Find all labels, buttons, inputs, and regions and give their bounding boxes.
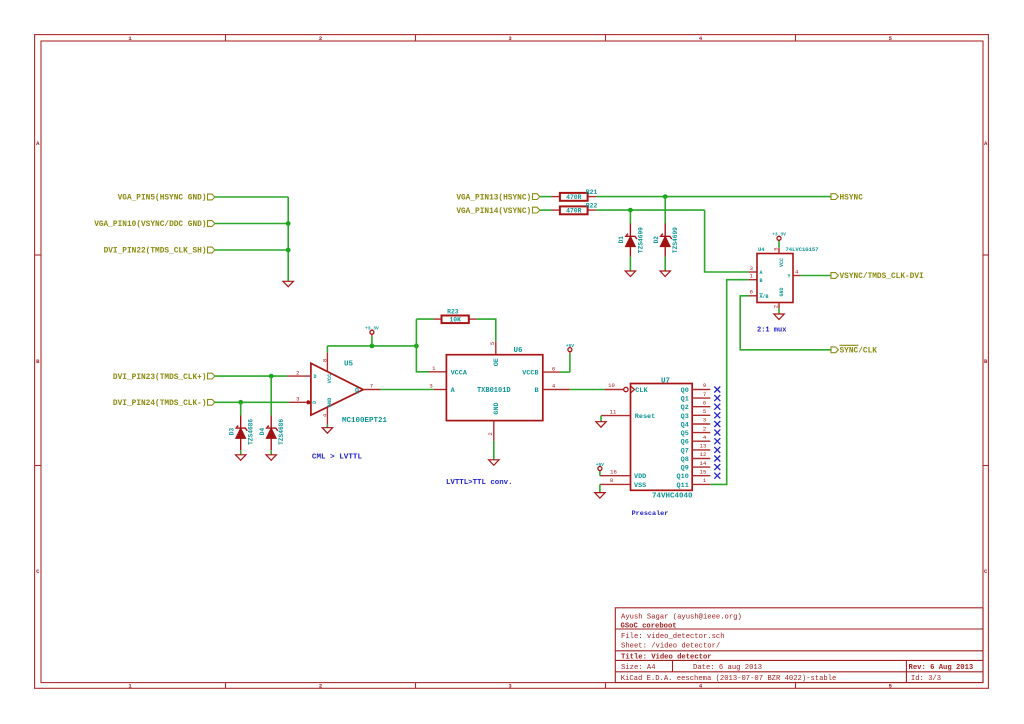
ground symbol D2	[660, 271, 670, 277]
svg-text:TZS4699: TZS4699	[672, 227, 679, 253]
label VGA_PIN14(VSYNC)	[456, 207, 540, 216]
svg-text:Q1: Q1	[681, 396, 689, 404]
U5 pin 2	[287, 369, 311, 376]
svg-text:Id: 3/3: Id: 3/3	[911, 675, 941, 683]
svg-text:VCCA: VCCA	[451, 370, 468, 378]
wire VGA_PIN14 to R22	[540, 209, 552, 211]
U5 pin 4 GND	[322, 408, 329, 425]
svg-text:Rev: 6 Aug 2013: Rev: 6 Aug 2013	[909, 664, 974, 672]
wire VGA_PIN13 to R21	[540, 196, 552, 198]
ground symbol Reset	[596, 422, 606, 428]
svg-text:TZS4699: TZS4699	[637, 227, 644, 253]
ground symbol U4	[774, 314, 784, 320]
no-connect Q3	[714, 412, 720, 418]
U7 pin 5 Q3	[692, 408, 710, 415]
ground symbol U5	[322, 428, 332, 434]
svg-text:470R: 470R	[566, 194, 582, 201]
svg-text:3: 3	[296, 396, 299, 403]
svg-text:2: 2	[296, 369, 299, 376]
wire Q11 to mux B	[710, 280, 748, 485]
svg-text:+3.3V: +3.3V	[365, 326, 379, 332]
svg-text:6: 6	[703, 399, 706, 406]
svg-text:R21: R21	[586, 189, 598, 196]
svg-text:74LVC1G157: 74LVC1G157	[786, 246, 819, 253]
svg-text:8: 8	[322, 359, 329, 362]
no-connect Q4	[714, 421, 720, 427]
no-connect Q2	[714, 404, 720, 410]
svg-text:15: 15	[700, 468, 707, 475]
U7 pin 4 Q6	[692, 434, 710, 441]
junction rail corner	[414, 344, 419, 349]
U4 pin 1 B	[749, 273, 757, 280]
svg-text:74VHC4040: 74VHC4040	[652, 493, 693, 501]
U4 pin 6 select	[749, 289, 757, 296]
svg-text:14: 14	[700, 460, 707, 467]
svg-text:VSS: VSS	[634, 482, 646, 490]
svg-text:470R: 470R	[566, 208, 582, 215]
svg-text:12: 12	[700, 451, 707, 458]
no-connect Q0	[714, 387, 720, 393]
svg-text:3: 3	[703, 417, 706, 424]
svg-text:Q2: Q2	[681, 404, 689, 412]
svg-text:CLK: CLK	[635, 387, 648, 395]
wire select to SYNC/CLK label	[740, 296, 831, 350]
IC U6 TXB0101D	[446, 347, 542, 421]
U7 pin 15 Q10	[692, 468, 710, 475]
svg-text:CML > LVTTL: CML > LVTTL	[312, 453, 363, 461]
svg-text:U5: U5	[344, 361, 354, 369]
svg-text:VGA_PIN5(HSYNC GND): VGA_PIN5(HSYNC GND)	[118, 195, 207, 203]
ground symbol D3	[236, 455, 246, 461]
label SYNC/CLK	[831, 345, 877, 355]
U7 pin 10 CLK inverted	[605, 382, 629, 391]
svg-text:DVI_PIN24(TMDS_CLK-): DVI_PIN24(TMDS_CLK-)	[113, 400, 207, 408]
svg-text:VGA_PIN10(VSYNC/DDC GND): VGA_PIN10(VSYNC/DDC GND)	[94, 221, 206, 229]
svg-text:Ayush Sagar (ayush@ieee.org): Ayush Sagar (ayush@ieee.org)	[621, 613, 742, 621]
ground symbol VSS	[595, 493, 605, 499]
U5 pin 8 VCC	[322, 352, 329, 371]
no-connect Q9	[714, 464, 720, 470]
svg-text:B: B	[760, 278, 763, 284]
IC U4 74LVC1G157	[757, 246, 819, 303]
U7 pin 9 Q0	[692, 382, 710, 389]
svg-text:MC100EPT21: MC100EPT21	[342, 417, 388, 425]
diode D3 TZS4686	[228, 402, 254, 454]
svg-text:VGA_PIN13(HSYNC): VGA_PIN13(HSYNC)	[456, 194, 531, 202]
U4 pin 4 Y	[793, 268, 800, 275]
svg-text:VGA_PIN14(VSYNC): VGA_PIN14(VSYNC)	[456, 208, 531, 216]
label VSYNC/TMDS_CLK-DVI	[831, 273, 924, 282]
wire U4 gnd	[778, 308, 780, 313]
svg-text:Date: 6 aug 2013: Date: 6 aug 2013	[693, 664, 762, 672]
svg-text:Q10: Q10	[677, 473, 689, 481]
power +5V U6	[560, 343, 574, 372]
svg-text:2: 2	[487, 432, 494, 435]
svg-text:OE: OE	[493, 358, 501, 366]
U5 pin 7 output wire	[363, 383, 380, 390]
svg-text:TZS4686: TZS4686	[248, 419, 255, 445]
svg-text:16: 16	[610, 468, 617, 475]
no-connect Q5	[714, 430, 720, 436]
wire U6 gnd	[493, 441, 495, 460]
svg-text:HSYNC: HSYNC	[840, 194, 864, 202]
U4 pin 5 VCC	[773, 247, 780, 253]
svg-text:Reset: Reset	[635, 413, 655, 421]
svg-text:VCC: VCC	[779, 258, 785, 267]
U6 pin 4 B	[543, 383, 570, 390]
svg-text:A: A	[760, 270, 763, 276]
wire R23 to OE	[477, 319, 496, 341]
U7 pin 1 Q11	[692, 477, 710, 484]
svg-text:GND: GND	[493, 402, 501, 414]
svg-text:9: 9	[703, 382, 706, 389]
note Prescaler	[632, 510, 669, 518]
svg-text:10: 10	[608, 382, 615, 389]
wire R22 to corner	[596, 209, 705, 211]
svg-text:TXB0101D: TXB0101D	[477, 387, 511, 395]
svg-text:KiCad E.D.A. eeschema (2013-0: KiCad E.D.A. eeschema (2013-07-07 BZR 40…	[621, 675, 837, 683]
U4 pin 2 GND	[773, 303, 780, 309]
U7 pin 3 Q4	[692, 417, 710, 424]
svg-text:+3.3V: +3.3V	[772, 232, 786, 238]
svg-text:D2: D2	[653, 236, 660, 244]
svg-text:5: 5	[703, 408, 706, 415]
no-connect Q1	[714, 395, 720, 401]
svg-text:U7: U7	[661, 377, 670, 385]
svg-text:D: D	[312, 401, 318, 404]
junction at VGA_PIN10 wire	[286, 221, 291, 226]
svg-text:Y: Y	[787, 274, 790, 280]
wire Y to label	[800, 275, 831, 277]
label DVI_PIN22(TMDS_CLK_SH)	[104, 247, 215, 256]
svg-text:VDD: VDD	[634, 473, 646, 481]
op-amp U5 MC100EPT21	[311, 361, 388, 426]
U6 pin 2 GND	[487, 421, 494, 441]
svg-text:GND: GND	[327, 397, 333, 407]
label HSYNC	[831, 194, 863, 203]
IC U7 74VHC4040	[631, 377, 693, 500]
U7 pin 7 Q1	[692, 391, 710, 398]
label DVI_PIN23(TMDS_CLK+)	[113, 373, 215, 382]
svg-text:R23: R23	[447, 308, 459, 315]
power +5V U7	[596, 462, 605, 476]
wire U6 B to U7 CLK	[570, 389, 605, 391]
svg-text:U4: U4	[758, 246, 765, 253]
no-connect Q7	[714, 447, 720, 453]
svg-text:2:1 mux: 2:1 mux	[757, 327, 787, 335]
U6 pin 5 OE	[489, 341, 496, 355]
svg-text:7: 7	[703, 391, 706, 398]
svg-text:DVI_PIN22(TMDS_CLK_SH): DVI_PIN22(TMDS_CLK_SH)	[104, 248, 207, 256]
diode D4 TZS4686	[259, 376, 285, 454]
wire DVI_PIN22 to vertical	[215, 249, 288, 251]
U7 pin 14 Q9	[692, 460, 710, 467]
wire rail to R23 and VCCA	[416, 319, 429, 372]
no-connect Q6	[714, 438, 720, 444]
U6 pin 6 VCCB	[543, 365, 560, 372]
svg-text:Q8: Q8	[681, 456, 689, 464]
svg-text:Q3: Q3	[681, 413, 689, 421]
svg-text:File: video_detector.sch: File: video_detector.sch	[621, 633, 725, 641]
svg-text:Q7: Q7	[681, 447, 689, 455]
svg-text:8: 8	[610, 477, 613, 484]
svg-text:2: 2	[773, 305, 780, 308]
wire VGA_PIN5 to vertical	[215, 196, 288, 198]
junction at DVI_PIN22 wire	[286, 248, 291, 253]
svg-text:Q: Q	[355, 387, 359, 394]
ground symbol D1	[625, 271, 635, 277]
svg-text:5: 5	[489, 342, 496, 345]
U7 pin 12 Q8	[692, 451, 710, 458]
ground symbol top-left group	[283, 281, 293, 287]
svg-text:U6: U6	[514, 347, 524, 355]
svg-text:3: 3	[750, 265, 753, 272]
svg-text:R22: R22	[586, 203, 598, 210]
U7 pin 11 Reset	[601, 408, 631, 415]
junction +3.3V tap	[370, 344, 375, 349]
svg-text:D4: D4	[259, 428, 266, 436]
svg-text:3: 3	[429, 383, 432, 390]
label DVI_PIN24(TMDS_CLK-)	[113, 399, 215, 408]
svg-text:D1: D1	[618, 236, 625, 244]
svg-text:7: 7	[370, 383, 373, 390]
U7 pin 8 VSS	[600, 477, 631, 484]
power +3.3V U5	[365, 326, 379, 346]
resistor R23 10K	[434, 308, 477, 323]
svg-text:LVTTL>TTL conv.: LVTTL>TTL conv.	[446, 479, 513, 487]
note LVTTL>TTL conv.	[446, 479, 513, 487]
svg-text:2: 2	[703, 425, 706, 432]
resistor R21 470R	[552, 189, 598, 201]
U7 pin 13 Q7	[692, 443, 710, 450]
svg-text:SYNC/CLK: SYNC/CLK	[840, 348, 878, 356]
svg-text:+5V: +5V	[566, 343, 575, 349]
svg-text:D: D	[314, 374, 317, 380]
U5 pin 3 inverted	[289, 396, 310, 405]
wire U5 VCC to rail	[326, 346, 328, 352]
wire VGA_PIN10 to vertical	[215, 223, 288, 225]
wire VSYNC down to mux A	[705, 210, 749, 272]
svg-text:Size: A4: Size: A4	[621, 664, 656, 672]
svg-text:B: B	[535, 387, 539, 395]
svg-text:Q11: Q11	[677, 482, 689, 490]
svg-text:11: 11	[610, 408, 617, 415]
svg-text:Q0: Q0	[681, 387, 689, 395]
wire Reset to ground	[600, 416, 602, 422]
svg-text:GSoC coreboot: GSoC coreboot	[621, 622, 677, 630]
wire vertical to ground	[287, 197, 289, 281]
svg-text:6: 6	[552, 365, 555, 372]
U7 pin 2 Q5	[692, 425, 710, 432]
power +3.3V U4	[772, 232, 786, 248]
wire U5 gnd	[326, 425, 328, 428]
U7 pin 6 Q2	[692, 399, 710, 406]
svg-text:10K: 10K	[449, 316, 461, 323]
ground symbol D4	[266, 455, 276, 461]
wire VSS to ground	[599, 484, 601, 492]
svg-text:DVI_PIN23(TMDS_CLK+): DVI_PIN23(TMDS_CLK+)	[113, 374, 207, 382]
svg-text:Title: Video detector: Title: Video detector	[621, 653, 712, 661]
wire U5 out to U6 A	[381, 389, 434, 391]
no-connect Q8	[714, 456, 720, 462]
wire DVI_PIN24 to U5 pin3	[215, 401, 289, 403]
svg-text:6: 6	[750, 289, 753, 296]
resistor R22 470R	[552, 203, 598, 215]
svg-text:A/B: A/B	[760, 294, 769, 300]
svg-text:VCCB: VCCB	[522, 370, 538, 378]
svg-text:13: 13	[700, 443, 707, 450]
label VGA_PIN13(HSYNC)	[456, 194, 540, 203]
svg-text:GND: GND	[779, 287, 785, 296]
wire R21 to HSYNC	[596, 196, 831, 198]
svg-text:D3: D3	[228, 428, 235, 436]
U7 pin 16 VDD	[600, 468, 631, 475]
wire DVI_PIN23 to U5 pin2	[215, 375, 287, 377]
U6 pin 1 VCCA	[429, 365, 446, 372]
svg-text:Q4: Q4	[681, 422, 689, 430]
svg-text:Q9: Q9	[681, 465, 689, 473]
svg-text:VSYNC/TMDS_CLK-DVI: VSYNC/TMDS_CLK-DVI	[840, 273, 925, 281]
svg-text:Q5: Q5	[681, 430, 689, 438]
junction D2 tap	[663, 194, 668, 199]
junction D1 tap	[628, 208, 633, 213]
svg-text:TZS4686: TZS4686	[278, 419, 285, 445]
svg-text:Prescaler: Prescaler	[632, 510, 669, 518]
label VGA_PIN10(VSYNC/DDC GND)	[94, 221, 215, 230]
svg-text:+5V: +5V	[596, 462, 605, 468]
ground symbol U6	[489, 460, 499, 466]
U6 pin 3 A	[429, 383, 446, 390]
note 2:1 mux	[757, 327, 787, 335]
wire VCC rail	[327, 345, 416, 347]
wire R23 left	[416, 318, 433, 320]
svg-text:Q6: Q6	[681, 439, 689, 447]
diode D1 TZS4699	[618, 210, 644, 271]
junction D4 tap	[269, 374, 274, 379]
diode D2 TZS4699	[653, 197, 679, 271]
svg-text:5: 5	[773, 247, 780, 250]
junction D3 tap	[238, 400, 243, 405]
no-connect Q10	[714, 473, 720, 479]
svg-text:Sheet: /video detector/: Sheet: /video detector/	[621, 642, 720, 650]
label VGA_PIN5(HSYNC GND)	[118, 194, 215, 203]
note CML > LVTTL	[312, 453, 363, 461]
svg-text:VCC: VCC	[327, 373, 333, 383]
U4 pin 3 A	[749, 265, 757, 272]
